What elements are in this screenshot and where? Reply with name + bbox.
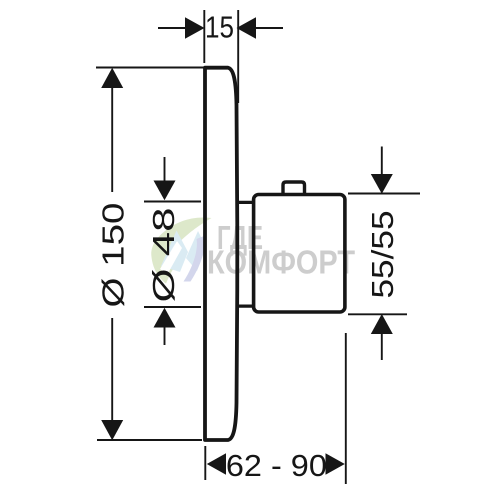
dim 15: extension line left <box>203 10 205 63</box>
dim 15: right tail line <box>254 27 283 29</box>
dim 55/55: bottom extension line <box>348 313 407 315</box>
svg-text:62 - 90: 62 - 90 <box>226 449 327 483</box>
dim O150: bottom arrow (down) <box>101 420 123 440</box>
dim 62-90: left extension line <box>204 446 206 480</box>
dim O48: top arrow (down) <box>154 181 176 201</box>
dim 15: extension line right <box>237 10 239 103</box>
svg-text:Ø 150: Ø 150 <box>97 203 131 308</box>
plate (escutcheon) side profile <box>205 68 237 440</box>
dim O150: bottom extension line <box>97 439 202 441</box>
dim O150: top extension line <box>96 67 204 69</box>
dim 55/55: bottom tail line <box>381 333 383 360</box>
dim O48: top extension line <box>144 201 201 203</box>
dim 15: right arrow <box>237 17 257 39</box>
dim 55/55: top arrow (down) <box>371 174 393 194</box>
knob (handle) rectangle <box>254 195 345 313</box>
svg-text:15: 15 <box>205 11 234 45</box>
svg-text:55/55: 55/55 <box>366 211 400 299</box>
dim 55/55: top extension line <box>348 193 420 195</box>
dim 62-90: left arrow <box>207 453 226 474</box>
dim O48: bottom tail line <box>164 327 166 346</box>
dim 55/55: top tail line <box>381 147 383 177</box>
svg-text:КОМФОРТ: КОМФОРТ <box>207 244 355 281</box>
dim 15: left arrow <box>185 17 205 39</box>
dim O48: bottom extension line <box>144 306 201 308</box>
svg-text:Ø 48: Ø 48 <box>147 208 181 303</box>
dim O48: bottom arrow (up) <box>154 308 176 328</box>
watermark logo drop <box>151 217 211 283</box>
stem bottom line <box>237 305 254 308</box>
dim 15: left tail line <box>158 27 187 29</box>
button on knob top <box>283 182 305 196</box>
stem top line <box>237 201 254 204</box>
dim O150: dimension line upper segment <box>111 87 113 192</box>
dim O150: dimension line lower segment <box>111 318 113 421</box>
dim 62-90: right extension line <box>345 333 347 484</box>
dim 62-90: right arrow <box>326 453 345 474</box>
dim 55/55: bottom arrow (up) <box>371 314 393 334</box>
dim O48: top tail line <box>164 157 166 182</box>
dim O150: top arrow (up) <box>101 68 123 88</box>
